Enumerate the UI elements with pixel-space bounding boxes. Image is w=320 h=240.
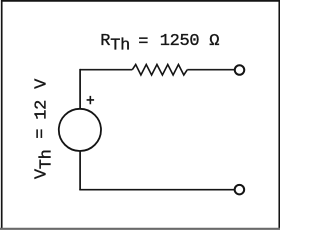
svg-text:=: =	[138, 33, 148, 52]
wire top-right horizontal	[187, 69, 235, 71]
resistor R_Th zigzag	[132, 65, 187, 76]
wire left vertical lower	[79, 151, 81, 190]
svg-text:V: V	[32, 78, 51, 89]
svg-text:Th: Th	[110, 36, 130, 55]
wire left vertical upper	[79, 69, 81, 109]
svg-text:1250 Ω: 1250 Ω	[160, 32, 220, 51]
plus polarity sign	[87, 96, 95, 104]
terminal top-right	[235, 65, 245, 75]
svg-text:Th: Th	[38, 149, 57, 169]
terminal bottom-right	[235, 185, 245, 195]
wire top-left horizontal	[80, 69, 132, 71]
svg-text:R: R	[100, 32, 110, 51]
voltage source V_Th circle	[59, 109, 101, 151]
border frame bottom edge	[0, 228, 280, 230]
svg-text:12: 12	[32, 100, 51, 120]
svg-text:=: =	[32, 129, 51, 139]
wire bottom horizontal	[79, 189, 235, 191]
